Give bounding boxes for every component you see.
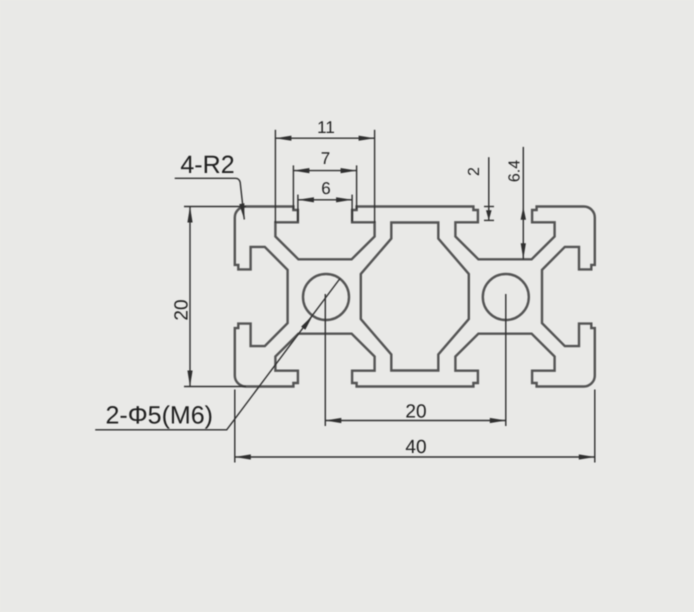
central cavity — [361, 223, 469, 371]
svg-text:20: 20 — [172, 299, 193, 320]
svg-text:2-Φ5(M6): 2-Φ5(M6) — [106, 402, 213, 430]
svg-text:4-R2: 4-R2 — [180, 151, 234, 179]
dim 7 line — [293, 170, 356, 172]
dim 11 line — [275, 137, 374, 139]
arrow dim 6 left — [298, 197, 314, 202]
dim 2 line and ticks — [488, 157, 490, 220]
profile outer outline with 6 T-slots — [235, 207, 595, 387]
arrow dim 20 left top — [187, 207, 192, 223]
svg-text:7: 7 — [321, 149, 330, 168]
arrow leader 4-R2 — [239, 203, 247, 220]
arrow dim 40 left — [235, 454, 251, 459]
arrow dim 6.4 down — [521, 243, 526, 259]
dim 6 line — [298, 199, 352, 201]
arrow dim 6.4 up — [521, 207, 526, 220]
dim 20 bottom extension lines — [324, 294, 326, 426]
dim 40 extension lines — [234, 390, 236, 463]
arrow dim 7 right — [341, 168, 357, 173]
arrow dim 20 bottom left — [325, 418, 341, 423]
arrow dim 40 right — [579, 454, 595, 459]
dim 20 bottom line — [325, 420, 506, 422]
arrow leader phi5 — [301, 314, 315, 330]
arrow dim 2 down — [486, 210, 492, 220]
hole right — [483, 274, 529, 320]
leader 2-phi5(M6) — [95, 279, 340, 430]
svg-text:2: 2 — [466, 167, 483, 176]
svg-text:6: 6 — [321, 179, 330, 198]
dim 20 left line — [189, 207, 191, 387]
arrow dim 20 bottom right — [490, 418, 506, 423]
svg-text:20: 20 — [405, 402, 426, 423]
arrow dim 7 left — [293, 168, 309, 173]
dim 7 extension lines — [292, 165, 294, 209]
leader 4-R2 — [175, 178, 245, 219]
arrow dim 11 left — [275, 136, 291, 141]
dim 6 extension lines — [297, 195, 299, 222]
hole left — [303, 274, 349, 320]
dim 20 left extension lines — [184, 206, 246, 208]
svg-text:6.4: 6.4 — [507, 160, 524, 182]
dim 40 line — [235, 456, 595, 458]
svg-text:11: 11 — [317, 118, 335, 137]
svg-text:40: 40 — [405, 437, 426, 458]
arrow dim 6 right — [336, 197, 352, 202]
arrow dim 20 left bottom — [187, 371, 192, 387]
dim 6.4 line — [522, 147, 524, 259]
arrow dim 11 right — [359, 136, 375, 141]
dim 11 extension lines — [274, 130, 276, 223]
